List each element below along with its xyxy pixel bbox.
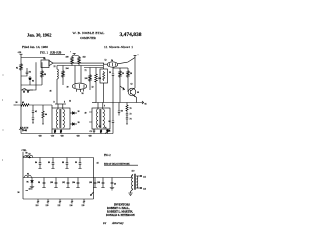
diode stub bottom bus 4	[70, 199, 74, 207]
fig2 input squiggle	[23, 152, 31, 158]
wire v x36	[21, 62, 36, 90]
capacitor shunt top row 4	[75, 158, 82, 169]
svg-text:COMPUTER: COMPUTER	[80, 36, 96, 40]
value label 20	[43, 58, 45, 60]
svg-text:E: E	[64, 102, 66, 104]
fig2 mid bus	[23, 177, 131, 179]
svg-text:SUB-SUB: SUB-SUB	[50, 51, 62, 54]
BY label	[103, 222, 107, 225]
diode D7 fig2	[27, 178, 35, 189]
svg-text:38: 38	[78, 122, 80, 124]
capacitor shunt mid row 2	[50, 178, 58, 188]
resistor R15	[16, 102, 52, 106]
diode D2	[70, 111, 79, 114]
svg-text:76: 76	[105, 128, 107, 130]
page edge marks	[2, 75, 4, 160]
svg-text:108: 108	[97, 182, 100, 184]
diode D3	[70, 122, 79, 125]
svg-text:120: 120	[46, 205, 49, 207]
resistor R14	[126, 103, 132, 114]
resistor R2	[41, 62, 46, 85]
label 96b fig2	[18, 192, 20, 194]
wire top-left rail	[21, 58, 45, 61]
value label 34b	[69, 101, 71, 103]
svg-text:118: 118	[36, 205, 39, 207]
svg-text:84: 84	[35, 162, 37, 164]
svg-text:122: 122	[58, 205, 61, 207]
transformer T3 lead	[131, 175, 133, 178]
wire rail y68 rightcol	[113, 67, 128, 69]
capacitor shunt mid row 4	[72, 178, 80, 188]
svg-text:C8: C8	[90, 131, 92, 133]
resistor R8	[54, 129, 56, 134]
resistor R1	[16, 63, 22, 71]
svg-text:54: 54	[111, 60, 113, 62]
svg-text:50: 50	[109, 72, 111, 74]
caption FIG 2	[104, 154, 111, 157]
svg-text:74: 74	[130, 119, 132, 121]
header inventor name	[73, 31, 105, 35]
transformer T1 core	[60, 109, 61, 128]
svg-text:20: 20	[43, 58, 45, 60]
terminal mid top	[70, 52, 76, 54]
inventor name 3	[106, 214, 135, 217]
value label 30	[67, 87, 69, 89]
diode D4	[106, 129, 111, 134]
header filed line	[22, 45, 48, 50]
capacitor shunt mid row 5	[89, 178, 97, 188]
svg-text:68: 68	[121, 111, 123, 113]
svg-text:66: 66	[145, 104, 147, 106]
value label 46b	[50, 91, 52, 93]
capacitor C6	[118, 103, 123, 116]
wire box B3 bottom	[103, 83, 105, 103]
svg-text:22: 22	[54, 66, 56, 68]
transformer T1 primary	[54, 102, 59, 129]
transformer T2 secondary	[103, 103, 105, 129]
svg-text:+150: +150	[18, 52, 22, 54]
svg-text:END OF DELAY NETWORK: END OF DELAY NETWORK	[104, 162, 130, 165]
resistor R10	[99, 126, 103, 134]
amplifier A1	[41, 60, 53, 68]
stub right box left	[85, 112, 93, 122]
header patent number	[120, 32, 142, 38]
wire mid top split	[72, 54, 79, 57]
resistor R3	[66, 56, 74, 65]
vacuum tube V2	[107, 60, 117, 67]
resistor R12	[119, 68, 124, 103]
resistor R13	[127, 68, 132, 92]
svg-text:3,474,838: 3,474,838	[120, 32, 142, 38]
svg-text:34: 34	[69, 101, 71, 103]
input label lines	[19, 128, 29, 133]
wire left bus	[20, 54, 22, 133]
wire box B3 top	[103, 64, 105, 69]
vacuum tube V1	[72, 83, 86, 89]
svg-text:58: 58	[82, 93, 84, 95]
diode stub bottom bus 3	[58, 199, 62, 207]
svg-text:52: 52	[105, 60, 107, 62]
fig2 corner v	[91, 158, 99, 200]
fig2 left bus	[22, 152, 24, 199]
svg-text:44: 44	[97, 163, 99, 165]
transformer T3 core	[134, 174, 137, 190]
attorney signature	[111, 221, 124, 225]
unit box B2	[92, 108, 110, 129]
svg-text:96: 96	[32, 81, 34, 83]
svg-text:+: +	[70, 52, 71, 54]
svg-text:F: F	[104, 106, 105, 108]
resistor R9	[60, 129, 62, 134]
svg-text:-150: -150	[51, 136, 55, 138]
resistor R11 in box	[103, 71, 105, 81]
svg-text:112: 112	[143, 177, 146, 179]
value label 62b	[131, 84, 133, 86]
output terminal fig1	[140, 101, 147, 106]
wire bottom bus fig1	[21, 133, 113, 135]
fig2 output top	[136, 175, 145, 178]
diode D6 bottom	[105, 128, 111, 134]
inductor L2	[25, 174, 32, 178]
fig2 bottom bus	[23, 198, 94, 200]
fig2 output bottom	[136, 187, 145, 190]
capacitor C7	[109, 103, 115, 134]
resistor R7	[95, 68, 101, 103]
diode stub bottom bus 5	[82, 199, 86, 207]
inductor L3	[57, 66, 58, 105]
svg-text:106: 106	[85, 78, 88, 80]
capacitor shunt top row 1	[35, 158, 42, 169]
svg-text:82: 82	[29, 154, 31, 156]
svg-text:106: 106	[89, 182, 92, 184]
svg-text:Attorney: Attorney	[111, 221, 124, 225]
capacitor shunt mid row 3	[62, 178, 70, 188]
unit box B3	[100, 69, 108, 83]
svg-text:-150: -150	[88, 136, 92, 138]
value label 22	[54, 66, 56, 68]
caption CTRL fig2	[22, 150, 28, 152]
capacitor C8b	[126, 114, 132, 116]
terminal B+ left	[18, 52, 23, 54]
inventor name 2	[107, 210, 133, 213]
transformer T2 primary	[96, 103, 98, 129]
svg-text:44: 44	[45, 114, 47, 116]
value label 150r	[76, 136, 80, 138]
resistor R4	[78, 56, 86, 65]
terminal tick y105	[14, 104, 17, 106]
svg-text:11 Sheets-Sheet 1: 11 Sheets-Sheet 1	[104, 45, 133, 49]
svg-text:46: 46	[114, 184, 116, 186]
svg-text:104: 104	[66, 68, 69, 70]
svg-text:-150: -150	[38, 136, 42, 138]
capacitor shunt mid row 1	[38, 178, 46, 188]
svg-text:124: 124	[70, 205, 73, 207]
svg-text:116: 116	[29, 189, 32, 191]
label -150 mid	[60, 136, 64, 138]
terminal top right	[134, 55, 139, 57]
svg-text:-150: -150	[60, 136, 64, 138]
svg-text:98: 98	[44, 74, 46, 76]
caption fig1 subtitle	[50, 51, 66, 54]
wire v x81 to tube	[80, 66, 82, 84]
svg-text:110: 110	[132, 171, 135, 173]
svg-text:Filed Jan. 14, 1960: Filed Jan. 14, 1960	[22, 45, 48, 50]
svg-text:BY: BY	[103, 222, 107, 225]
svg-text:46: 46	[50, 91, 52, 93]
svg-text:86: 86	[48, 162, 50, 164]
value label 150rr	[88, 136, 92, 138]
value label 90	[16, 102, 18, 104]
svg-text:32: 32	[92, 87, 94, 89]
svg-text:D: D	[54, 102, 56, 104]
capacitor C10	[32, 105, 37, 117]
svg-text:100: 100	[50, 182, 53, 184]
capacitor C9	[126, 115, 132, 124]
svg-text:72: 72	[130, 114, 132, 116]
svg-text:-150: -150	[76, 136, 80, 138]
svg-text:104: 104	[72, 182, 75, 184]
svg-text:64: 64	[109, 121, 111, 123]
unit box B1	[52, 108, 70, 129]
transformer T1 secondary	[63, 102, 66, 129]
svg-text:90: 90	[16, 102, 18, 104]
svg-text:102: 102	[62, 182, 65, 184]
svg-text:Jan. 30, 1962: Jan. 30, 1962	[27, 32, 51, 37]
transformer T3 primary	[128, 175, 133, 196]
capacitor C1	[21, 68, 31, 76]
capacitor C30 with ground	[110, 178, 116, 190]
value label 72t	[85, 70, 87, 72]
svg-text:FIG 2: FIG 2	[104, 154, 111, 157]
capacitor C11	[32, 118, 34, 123]
svg-text:56: 56	[122, 73, 124, 75]
wire rail y104 right	[92, 102, 96, 104]
transformer T2 core	[100, 109, 101, 128]
svg-text:100: 100	[66, 57, 69, 59]
svg-text:62: 62	[131, 84, 133, 86]
svg-text:60: 60	[137, 92, 139, 94]
svg-text:92: 92	[16, 68, 18, 70]
inductor L1	[26, 154, 33, 158]
svg-text:62: 62	[99, 126, 101, 128]
caption FIG. 1	[40, 51, 49, 55]
header title COMPUTER	[80, 36, 96, 40]
capacitor shunt top row 3	[62, 158, 69, 169]
svg-text:94: 94	[27, 174, 29, 176]
svg-text:42: 42	[35, 111, 37, 113]
svg-text:80: 80	[26, 152, 28, 154]
svg-text:40: 40	[85, 113, 87, 115]
svg-text:70: 70	[130, 108, 132, 110]
wire rail y85	[21, 84, 42, 86]
svg-text:+: +	[138, 55, 139, 57]
fig2 top bus	[23, 157, 94, 159]
label 116 fig2	[26, 189, 32, 191]
resistor R6	[85, 68, 92, 91]
svg-text:ROBERT L. MARTIN,: ROBERT L. MARTIN,	[107, 210, 133, 213]
svg-text:126: 126	[82, 205, 85, 207]
wire rail y72 right	[84, 67, 103, 69]
svg-text:ROBERT C. HALL,: ROBERT C. HALL,	[107, 207, 130, 210]
resistor R16	[42, 105, 47, 124]
diode D1	[29, 76, 34, 85]
header date	[27, 32, 51, 37]
wire tube2 right	[118, 58, 135, 64]
diode stub bottom bus 2	[46, 199, 50, 207]
svg-text:114: 114	[143, 189, 146, 191]
wire r3 r4 feet	[72, 65, 79, 66]
svg-text:96: 96	[27, 182, 29, 184]
svg-text:36: 36	[78, 111, 80, 113]
svg-text:90: 90	[75, 162, 77, 164]
transformer T3 secondary	[132, 171, 138, 189]
label -150 left	[51, 136, 55, 138]
inventor name 1	[107, 207, 130, 210]
svg-text:108: 108	[98, 78, 101, 80]
capacitor shunt mid row 6	[97, 178, 105, 188]
svg-text:W. B. NOBLE ETAL: W. B. NOBLE ETAL	[73, 31, 105, 35]
svg-text:96: 96	[18, 192, 20, 194]
svg-text:58: 58	[130, 73, 132, 75]
diode D5 diagonal	[120, 86, 125, 90]
svg-text:30: 30	[67, 87, 69, 89]
value label 32	[92, 87, 94, 89]
svg-text:40: 40	[22, 102, 24, 104]
header sheets line	[104, 45, 133, 49]
svg-text:DONALD S. PETERSON: DONALD S. PETERSON	[106, 214, 135, 217]
wire amp out rail	[53, 63, 104, 64]
wire v x75 to tube	[74, 66, 76, 84]
wire box B1 left ext	[51, 105, 53, 134]
wire out rail	[96, 102, 140, 104]
transistor Q1	[128, 88, 139, 103]
capacitor shunt top row 2	[48, 158, 55, 169]
svg-text:88: 88	[62, 162, 64, 164]
wire tube2 left	[104, 63, 108, 65]
svg-text:72: 72	[85, 70, 87, 72]
value label 52b	[105, 60, 107, 62]
tube V1 pins	[77, 89, 84, 95]
input squiggle fig1	[22, 89, 33, 93]
diode stub bottom bus 1	[36, 199, 40, 207]
svg-text:98: 98	[38, 182, 40, 184]
caption fig2 subtitle	[104, 162, 138, 165]
svg-text:102: 102	[83, 57, 86, 59]
wire rail y68	[57, 65, 103, 67]
capacitor C2	[90, 129, 96, 134]
wire v x135	[134, 55, 136, 88]
svg-text:FIG. 1: FIG. 1	[40, 51, 49, 55]
label -150 bottomleft	[38, 136, 42, 138]
svg-text:94: 94	[29, 72, 31, 74]
capacitor C3	[109, 67, 114, 102]
label INVENTORS	[114, 203, 130, 206]
wire rail y104 left	[55, 103, 66, 105]
resistor R5	[62, 66, 69, 86]
